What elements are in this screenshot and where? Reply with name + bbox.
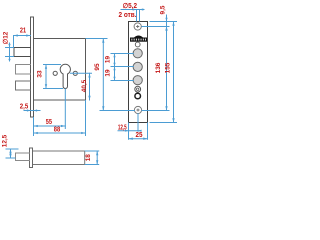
svg-text:25: 25	[136, 132, 143, 139]
right view: small hole under logo	[135, 42, 140, 47]
svg-text:19: 19	[105, 69, 112, 77]
svg-text:12,5: 12,5	[2, 134, 9, 147]
dimension 21	[14, 36, 31, 48]
svg-text:33: 33	[37, 70, 44, 78]
svg-text:12,5: 12,5	[118, 124, 127, 131]
svg-text:19: 19	[105, 56, 112, 64]
right view: middle screw hole	[135, 86, 141, 92]
dimension 155	[150, 22, 177, 123]
right view: bolt circle 2	[133, 62, 142, 71]
svg-text:21: 21	[20, 28, 26, 35]
left view: lock body	[34, 39, 86, 101]
svg-text:∅5,2: ∅5,2	[123, 2, 137, 10]
dimension 136	[142, 27, 169, 111]
right view: bolt circle 1	[133, 49, 142, 58]
dimension 9,5	[165, 15, 167, 30]
svg-text:18: 18	[85, 154, 92, 162]
dimension 19 19	[111, 54, 133, 81]
dimension 33	[44, 65, 63, 89]
svg-text:55: 55	[46, 119, 52, 126]
dimension 12,5 bottom view	[6, 149, 18, 158]
svg-text:2,5: 2,5	[20, 104, 28, 111]
left view: right mounting hole	[73, 71, 77, 75]
dimension 55	[34, 89, 66, 129]
dimension 40,5	[71, 73, 92, 100]
bottom view: bolt	[16, 153, 30, 161]
svg-text:155: 155	[165, 62, 172, 73]
dimension d12	[6, 43, 14, 61]
svg-text:88: 88	[54, 126, 60, 133]
svg-text:136: 136	[155, 62, 162, 73]
svg-text:2 отв.: 2 отв.	[119, 12, 137, 19]
left view: faceplate strip (edge-on)	[31, 17, 34, 117]
svg-text:95: 95	[94, 63, 101, 71]
svg-text:9,5: 9,5	[160, 5, 167, 14]
dimension 95	[86, 39, 135, 111]
right view: top phillips screw hole	[134, 23, 141, 30]
bottom view: body	[33, 151, 85, 165]
left view: euro cylinder keyhole	[60, 64, 70, 88]
left view: bolt 1	[14, 48, 31, 57]
svg-text:∅12: ∅12	[3, 31, 10, 44]
bottom view: faceplate section	[30, 148, 33, 168]
right view: bottom phillips screw hole	[134, 106, 141, 113]
dimension 88	[34, 101, 86, 136]
right view: bolt circle 3	[133, 76, 142, 85]
dimension 2,5	[24, 109, 40, 111]
logo badge	[130, 36, 147, 42]
left view: bolt 3	[16, 81, 31, 90]
dimension 18	[85, 151, 99, 165]
dimension 25	[129, 123, 148, 139]
callout d5,2 2 holes leader	[121, 8, 144, 21]
left view: left mounting hole	[53, 71, 57, 75]
svg-text:40,5: 40,5	[81, 79, 88, 92]
right view: latch hole	[135, 93, 141, 99]
right view: faceplate strip front	[129, 22, 148, 123]
left view: bolt 2	[16, 65, 31, 75]
dimension 12,5 right view	[118, 114, 142, 140]
